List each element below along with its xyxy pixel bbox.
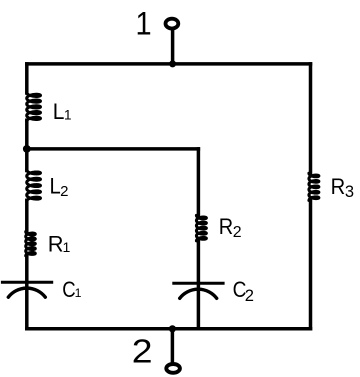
wire R1 to C1 and bottom rail — [25, 255, 29, 329]
svg-text:L: L — [50, 173, 61, 198]
svg-text:3: 3 — [345, 183, 354, 201]
wire top rail — [27, 62, 311, 66]
resistor R2 — [196, 215, 206, 241]
svg-text:1: 1 — [64, 107, 72, 122]
wire node to L2 — [25, 149, 29, 171]
wire bottom rail to terminal 2 — [171, 329, 175, 362]
svg-text:R: R — [331, 174, 346, 199]
svg-text:2: 2 — [132, 333, 153, 370]
svg-text:2: 2 — [245, 286, 254, 305]
wire R2 to C2 and bottom rail — [197, 240, 201, 329]
svg-text:1: 1 — [136, 5, 152, 41]
wire L1 to node — [25, 120, 29, 149]
node junction left — [23, 145, 31, 153]
wire bottom rail — [27, 327, 311, 331]
terminal 2 circle — [166, 364, 180, 373]
capacitor C2 top plate — [172, 282, 224, 285]
node junction top — [169, 60, 176, 67]
node junction bottom — [169, 325, 176, 332]
wire R3 to bottom rail — [309, 199, 313, 328]
inductor L1 — [27, 93, 41, 122]
svg-text:L: L — [53, 99, 65, 124]
svg-text:2: 2 — [60, 183, 68, 200]
capacitor C1 curved plate — [8, 288, 45, 297]
wire left top segment — [25, 64, 29, 93]
wire terminal 1 to top rail — [171, 30, 175, 64]
svg-text:2: 2 — [233, 224, 242, 241]
wire right top segment — [309, 64, 313, 174]
resistor R1 — [26, 232, 36, 256]
resistor R3 — [309, 173, 319, 200]
wire middle vertical top — [197, 149, 201, 216]
svg-text:R: R — [48, 231, 64, 256]
svg-text:1: 1 — [63, 239, 71, 255]
inductor L2 — [27, 170, 41, 202]
wire node to middle branch horizontal — [27, 147, 199, 151]
terminal 1 circle — [166, 19, 179, 29]
capacitor C2 curved plate — [180, 289, 217, 298]
svg-text:R: R — [219, 214, 233, 239]
wire L2 to R1 — [25, 200, 29, 232]
capacitor C1 top plate — [1, 281, 53, 284]
svg-text:1: 1 — [75, 286, 82, 300]
